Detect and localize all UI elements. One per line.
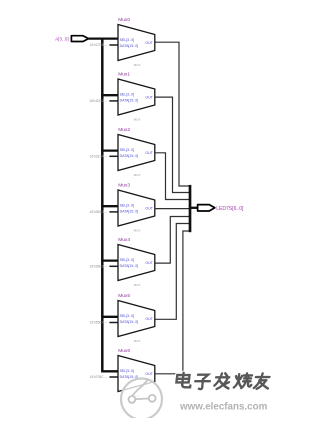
svg-text:MUX: MUX — [134, 228, 141, 232]
svg-text:DATA[15..0]: DATA[15..0] — [120, 154, 139, 158]
wire constant stub to Mux6 data input — [109, 376, 119, 378]
watermark logo circle — [121, 379, 162, 420]
select bus A[3..0] vertical — [101, 38, 104, 372]
svg-text:Mux4: Mux4 — [118, 237, 130, 243]
wire Mux0 output to merge bar — [155, 42, 190, 186]
svg-text:16'h4DD2 --: 16'h4DD2 -- — [89, 99, 107, 103]
svg-text:SEL[3..0]: SEL[3..0] — [120, 148, 134, 152]
output port connector LED7S — [198, 205, 215, 211]
wire constant stub to Mux4 data input — [109, 265, 119, 267]
svg-text:MUX: MUX — [134, 63, 141, 67]
svg-text:MUX: MUX — [134, 173, 141, 177]
svg-text:Mux0: Mux0 — [118, 17, 130, 23]
wire select branch to Mux5 — [101, 316, 119, 318]
wire constant stub to Mux1 data input — [109, 100, 119, 102]
wire Mux5 output to merge bar — [155, 224, 190, 320]
wire constant stub to Mux0 data input — [109, 44, 119, 46]
wire select branch to Mux4 — [101, 259, 119, 261]
svg-text:DATA[15..0]: DATA[15..0] — [120, 99, 139, 103]
mux Mux5 — [118, 293, 155, 343]
svg-text:OUT: OUT — [145, 206, 153, 210]
svg-text:16'h55EF --: 16'h55EF -- — [90, 321, 107, 325]
wire constant stub to Mux5 data input — [109, 322, 119, 324]
svg-text:16'h36EB --: 16'h36EB -- — [89, 265, 106, 269]
svg-text:16'h705C --: 16'h705C -- — [90, 375, 107, 379]
merge bar node LED7S[6..0] — [189, 185, 192, 232]
input port connector A — [71, 36, 88, 42]
svg-text:SEL[3..0]: SEL[3..0] — [120, 38, 134, 42]
svg-text:Mux6: Mux6 — [118, 348, 130, 354]
svg-text:Mux1: Mux1 — [118, 72, 130, 78]
svg-text:Mux5: Mux5 — [118, 293, 130, 299]
wire Mux1 output to merge bar — [155, 97, 190, 192]
mux Mux6 — [118, 348, 155, 398]
svg-text:A[3..0]: A[3..0] — [55, 36, 69, 41]
mux Mux2 — [118, 127, 155, 177]
svg-text:OUT: OUT — [145, 372, 153, 376]
wire select branch to Mux2 — [101, 149, 119, 151]
svg-text:DATA[15..0]: DATA[15..0] — [120, 210, 139, 214]
svg-text:www.elecfans.com: www.elecfans.com — [179, 402, 268, 413]
wire Mux6 output to merge bar — [155, 231, 190, 374]
svg-text:OUT: OUT — [145, 317, 153, 321]
svg-text:DATA[15..0]: DATA[15..0] — [120, 320, 139, 324]
wire Mux3 output to merge bar — [155, 208, 190, 210]
svg-text:OUT: OUT — [145, 151, 153, 155]
wire A[3..0] from port to select bus and Mux0 SEL input — [88, 37, 119, 39]
svg-text:16'h27D8 --: 16'h27D8 -- — [90, 43, 107, 47]
svg-text:16'h2E3A --: 16'h2E3A -- — [90, 155, 107, 159]
svg-text:OUT: OUT — [145, 41, 153, 45]
svg-text:SEL[3..0]: SEL[3..0] — [120, 258, 134, 262]
wire Mux2 output to merge bar — [155, 153, 190, 200]
svg-text:SEL[3..0]: SEL[3..0] — [120, 369, 134, 373]
svg-text:DATA[15..0]: DATA[15..0] — [120, 44, 139, 48]
mux Mux0 — [118, 17, 155, 67]
svg-text:OUT: OUT — [145, 261, 153, 265]
svg-text:Mux3: Mux3 — [118, 183, 130, 189]
wire select branch to Mux6 — [101, 370, 119, 372]
watermark text 电子发烧友 — [176, 373, 270, 389]
wire constant stub to Mux3 data input — [109, 211, 119, 213]
svg-text:16'h3BA3 --: 16'h3BA3 -- — [89, 210, 106, 214]
svg-text:MUX: MUX — [134, 283, 141, 287]
wire Mux4 output to merge bar — [155, 217, 190, 264]
svg-text:LED7S[6..0]: LED7S[6..0] — [216, 206, 244, 212]
wire select branch to Mux3 — [101, 205, 119, 207]
svg-text:DATA[15..0]: DATA[15..0] — [120, 264, 139, 268]
wire constant stub to Mux2 data input — [109, 155, 119, 157]
svg-text:Mux2: Mux2 — [118, 127, 130, 133]
mux Mux3 — [118, 183, 155, 233]
svg-text:SEL[3..0]: SEL[3..0] — [120, 93, 134, 97]
svg-text:MUX: MUX — [134, 339, 141, 343]
svg-text:SEL[3..0]: SEL[3..0] — [120, 204, 134, 208]
svg-text:MUX: MUX — [134, 117, 141, 121]
wire select branch to Mux1 — [101, 94, 119, 96]
mux Mux4 — [118, 237, 155, 287]
mux Mux1 — [118, 72, 155, 122]
svg-text:OUT: OUT — [145, 95, 153, 99]
svg-text:SEL[3..0]: SEL[3..0] — [120, 314, 134, 318]
wire merge bar to output port — [190, 207, 198, 209]
